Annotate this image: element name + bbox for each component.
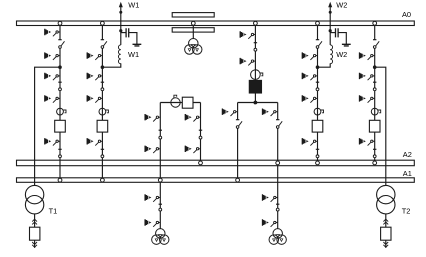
wire bay2 feeder x=102.4 upper segment — [101, 23, 103, 39]
disconnector middle-right branch (open blade) — [276, 120, 282, 129]
disconnector contact coupler left vertical — [159, 130, 162, 139]
wire middle-left branch x=237.6 lower to A1 — [237, 127, 239, 179]
earthing switch VT1 bay upper — [145, 194, 160, 202]
wire bus-coupler right vertical x=200.5 to A2 — [200, 103, 202, 162]
label W2 at line trap — [336, 50, 347, 59]
disconnector contact bay3 lower — [316, 149, 319, 157]
earthing switch bay1 mid-2 — [45, 95, 60, 103]
svg-text:A1: A1 — [403, 169, 412, 178]
busbar A0 (top 330 kV bus) — [17, 21, 415, 26]
label A1 — [403, 169, 412, 178]
wire bay2 feeder x=102.4 main segment A0->A1 — [101, 47, 103, 179]
earthing switch bay1 mid-1 — [45, 73, 60, 81]
junction node W1 capacitor tap — [119, 29, 122, 32]
junction node bay2 to W1 line trap — [101, 65, 105, 69]
wire W2 coupling-capacitor tap left — [330, 32, 335, 34]
node coupler on A2 — [199, 161, 203, 165]
svg-text:T2: T2 — [402, 207, 411, 216]
LV box T1 — [30, 227, 40, 240]
earthing switch bay2 mid-2 — [87, 95, 102, 103]
earthing switch middle bay upper — [240, 31, 255, 39]
arrow chevrons below T2 LV box — [383, 242, 388, 247]
bus section rectangle lower (bypass section) — [172, 28, 214, 32]
node VT bay on A0 — [191, 21, 195, 25]
node bay1 on A1 — [58, 178, 62, 182]
wire T1 stem below LV box — [34, 240, 36, 248]
arrow chevrons above T2 LV box — [383, 219, 388, 224]
wire branch bay1 junction to T1 drop — [35, 67, 60, 185]
node bay4 on A2 — [373, 161, 377, 165]
earthing switch bay4 lower — [360, 138, 375, 146]
circuit breaker bay2 — [97, 120, 108, 132]
earthing switch bay2 lower — [87, 138, 102, 146]
voltage transformer 3-winding VT1 on A1 — [152, 229, 169, 245]
transformer T1 two-winding circles — [25, 185, 43, 213]
wire W1 coupling-capacitor tap right + down to ground — [129, 33, 137, 44]
line W1 arrow head — [119, 2, 123, 7]
disconnector contact middle bay — [254, 43, 257, 51]
disconnector contact coupler right vertical — [199, 130, 202, 139]
wire T1 stem above LV box — [34, 214, 36, 227]
node bay2 on A1 — [101, 178, 105, 182]
node middle bay on A0 — [254, 21, 258, 25]
bus section rectangle upper (bypass section) — [172, 13, 214, 17]
svg-text:W2: W2 — [336, 1, 347, 10]
wire branch bay4 junction to T2 drop — [375, 67, 386, 185]
disconnector contact bay2 mid — [101, 82, 104, 91]
wire W1 line-trap bottom elbow to bay2 junction — [102, 63, 120, 67]
earthing switch bay2 upper — [87, 52, 102, 60]
earthing switch VT1 bay lower — [145, 219, 160, 227]
earthing switch VT2 bay upper — [263, 194, 278, 202]
wire W2 coupling-capacitor tap right + down to ground — [338, 33, 346, 44]
wire VT bay stub from A0 node — [192, 23, 194, 39]
circuit breaker bay4 — [369, 120, 380, 132]
LV box T2 — [381, 227, 391, 240]
earthing switch bay1 lower — [45, 138, 60, 146]
ground of W2 coupling capacitor — [342, 44, 351, 46]
earthing switch coupler left vertical lower — [145, 146, 160, 154]
disconnector contact bay4 lower — [373, 149, 376, 157]
disconnector bay1 top (open blade) — [58, 40, 64, 49]
label T1 — [49, 207, 58, 216]
node bay3 on A0 — [316, 21, 320, 25]
label A2 — [403, 150, 412, 159]
wire middle-right branch x=277.7 upper — [277, 103, 279, 120]
wire VT2 drop from A2 x=277.7 down to 3-winding VT — [277, 163, 279, 229]
wire T2 stem above LV box — [385, 214, 387, 227]
node bay2 on A0 — [101, 21, 105, 25]
coupling capacitor W2 plates — [336, 28, 339, 37]
wire bay3 feeder x=317.5 main segment A0->A2 — [317, 47, 319, 162]
earthing switch middle-right branch — [263, 109, 278, 117]
wire middle-left branch x=237.6 upper — [237, 103, 239, 120]
disconnector bay2 top (open blade) — [101, 40, 107, 49]
earthing switch VT2 bay lower — [263, 219, 278, 227]
junction node W2 capacitor tap — [329, 29, 332, 32]
wire middle bay horizontal split — [238, 102, 278, 104]
earthing switch middle-left branch — [222, 109, 237, 117]
wire bus-coupler left vertical x=160.3 down to VT1 — [159, 103, 161, 229]
line W2 arrow tail dot — [329, 11, 332, 14]
svg-text:A2: A2 — [403, 150, 412, 159]
earthing switch bay3 mid-2 — [302, 95, 317, 103]
disconnector contact bay1 mid — [58, 82, 61, 91]
coupling capacitor W1 plates — [126, 28, 129, 37]
wire T2 stem below LV box — [385, 240, 387, 248]
earthing switch coupler right vertical lower — [185, 146, 200, 154]
earthing switch coupler left vertical upper — [145, 114, 160, 122]
wire bay1 feeder x=60 main segment A0->A1 — [59, 47, 61, 179]
line W1 arrow tail dot — [119, 11, 122, 14]
current transformer bus coupler — [171, 95, 180, 107]
wire middle bay x=255.4 upper run — [254, 23, 256, 80]
busbar A1 (lower bus) — [17, 178, 415, 183]
wire bay4 feeder x=374.7 upper segment — [374, 23, 376, 39]
voltage transformer 3-winding on A0 — [185, 39, 202, 55]
wire W2 line-trap bottom elbow to bay3 junction — [318, 63, 331, 67]
disconnector contact VT1 bay — [159, 204, 162, 211]
svg-text:W1: W1 — [128, 50, 139, 59]
node middle-left branch on A1 — [236, 178, 240, 182]
wire line W1 overhead span with up arrow stem — [120, 6, 122, 45]
wire bay3 feeder x=317.5 upper segment — [317, 23, 319, 39]
label A0 — [402, 10, 411, 19]
wire middle-right branch x=277.7 lower to A2 — [277, 127, 279, 162]
line trap (wave trap) W1 coil — [118, 45, 120, 64]
transformer T2 two-winding circles — [377, 185, 395, 213]
label T2 — [402, 207, 411, 216]
label W2 top — [336, 1, 347, 10]
svg-text:W1: W1 — [128, 1, 139, 10]
earthing switch bay4 mid-1 — [360, 73, 375, 81]
node coupler on A1 — [158, 178, 162, 182]
earthing switch bay2 mid-1 — [87, 73, 102, 81]
node bay3 on A2 — [316, 161, 320, 165]
earthing switch bay3 lower — [302, 138, 317, 146]
disconnector middle-left branch (open blade) — [236, 120, 242, 129]
circuit breaker bay1 — [55, 120, 66, 132]
svg-text:T1: T1 — [49, 207, 58, 216]
earthing switch bay4 upper — [360, 52, 375, 60]
current transformer bay3 — [314, 108, 323, 115]
wire bay1 feeder x=60 upper segment — [59, 23, 61, 39]
current transformer bay2 — [99, 108, 108, 115]
node bay1 on A0 — [58, 21, 62, 25]
node middle-right branch on A2 — [276, 161, 280, 165]
earthing switch coupler right vertical upper — [185, 114, 200, 122]
disconnector bay3 top (open blade) — [316, 40, 322, 49]
circuit breaker bay3 — [312, 120, 323, 132]
disconnector contact bay4 mid — [373, 82, 376, 91]
junction node bay4 to T2 branch — [373, 65, 377, 69]
disconnector contact bay1 lower — [58, 149, 61, 157]
arrow chevrons below T1 LV box — [32, 242, 37, 247]
earthing switch bay1 upper-2 — [45, 52, 60, 60]
voltage transformer 3-winding VT2 on A2 — [269, 229, 286, 245]
arrow chevrons above T1 LV box — [32, 219, 37, 224]
line trap (wave trap) W2 coil — [330, 45, 332, 64]
earthing switch bay3 upper — [302, 52, 317, 60]
ground of W1 coupling capacitor — [133, 44, 142, 46]
current transformer bay4 — [371, 108, 380, 115]
circuit breaker bus coupler — [182, 97, 193, 108]
junction node bay3 to W2 line trap — [316, 65, 320, 69]
junction node bay1 to T1 branch — [58, 65, 62, 69]
current transformer bay1 — [57, 108, 66, 115]
svg-text:A0: A0 — [402, 10, 411, 19]
current transformer middle bay — [251, 70, 263, 80]
earthing switch bay4 mid-2 — [360, 95, 375, 103]
label W1 at line trap — [128, 50, 139, 59]
busbar A2 (middle bus) — [17, 160, 415, 166]
label W1 top — [128, 1, 139, 10]
svg-text:W2: W2 — [336, 50, 347, 59]
disconnector contact bay2 lower — [101, 149, 104, 157]
line W2 arrow head — [328, 2, 332, 7]
junction node middle bay split — [254, 101, 258, 105]
circuit breaker middle bay (closed, filled) — [249, 80, 261, 93]
earthing switch middle bay mid — [240, 58, 255, 66]
disconnector contact bay3 mid — [316, 82, 319, 91]
wire middle bay x=255.4 below black breaker — [254, 93, 256, 103]
wire W1 coupling-capacitor tap left — [121, 32, 126, 34]
wire bus-coupler horizontal — [160, 102, 200, 104]
wire line W2 overhead span with up arrow stem — [329, 6, 331, 45]
disconnector contact VT2 bay — [276, 204, 279, 211]
node bay4 on A0 — [373, 21, 377, 25]
wire bay4 feeder x=374.7 main segment A0->A2 — [374, 47, 376, 162]
earthing switch bay3 mid-1 — [302, 73, 317, 81]
earthing switch bay1 upper-1 — [45, 29, 60, 37]
disconnector bay4 top (open blade) — [373, 40, 379, 49]
